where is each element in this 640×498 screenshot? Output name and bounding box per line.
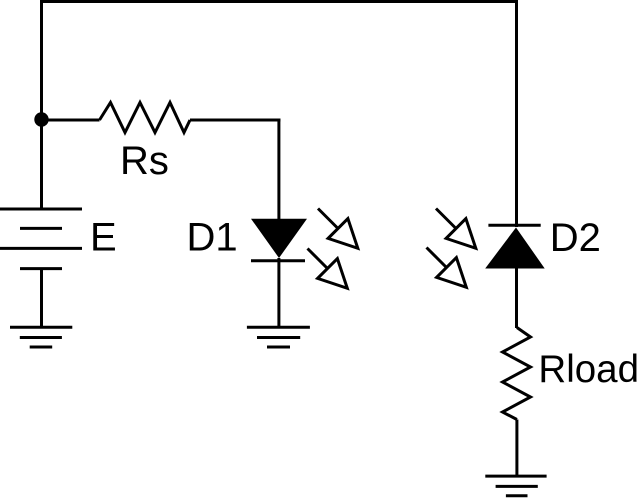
wire D1 to ground xyxy=(277,258,280,327)
diode D2 cathode bar xyxy=(488,224,540,227)
ground (below D1) xyxy=(247,327,310,347)
svg-text:E: E xyxy=(90,216,117,260)
battery E plates xyxy=(0,209,82,269)
wire right vertical (D2 branch) xyxy=(515,0,518,227)
wire top rail xyxy=(40,0,518,3)
svg-text:D1: D1 xyxy=(187,216,238,260)
wire Rload to ground xyxy=(515,420,518,477)
ground (below Rload) xyxy=(485,476,546,496)
light arrow into D2 (lower) xyxy=(427,248,467,288)
svg-text:D2: D2 xyxy=(550,216,601,260)
diode D2 (photodiode) triangle xyxy=(485,228,545,269)
light arrow from D1 (lower) xyxy=(308,249,348,289)
resistor Rs xyxy=(100,103,191,133)
ground (below battery E) xyxy=(10,327,72,347)
wire left vertical (E branch) xyxy=(40,0,43,209)
node junction dot xyxy=(34,112,48,126)
diode D1 (LED) triangle xyxy=(251,219,307,258)
light arrow into D2 (upper) xyxy=(436,209,476,249)
diode D1 cathode bar xyxy=(251,259,305,262)
svg-text:Rload: Rload xyxy=(538,348,639,391)
wire node to Rs xyxy=(42,119,100,122)
light arrow from D1 (upper) xyxy=(318,209,358,249)
wire D2 to Rload xyxy=(515,269,518,329)
resistor Rload xyxy=(503,328,531,420)
wire battery to ground xyxy=(40,269,43,327)
wire Rs to corner xyxy=(190,119,280,122)
wire corner down to D1 xyxy=(277,119,280,221)
svg-text:Rs: Rs xyxy=(120,139,169,183)
